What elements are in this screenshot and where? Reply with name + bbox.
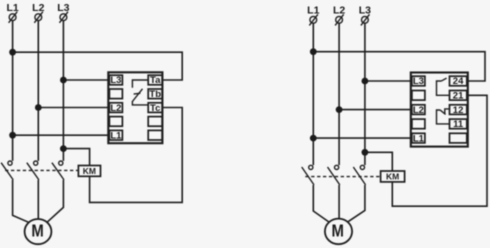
svg-text:L3: L3 — [57, 2, 69, 14]
svg-text:L1: L1 — [6, 2, 18, 14]
svg-text:L3: L3 — [413, 76, 424, 87]
svg-text:KM: KM — [386, 171, 399, 181]
svg-text:M: M — [31, 221, 43, 241]
svg-text:L3: L3 — [359, 4, 371, 16]
svg-text:Ta: Ta — [150, 75, 161, 86]
svg-text:L2: L2 — [110, 103, 121, 114]
svg-text:Tb: Tb — [149, 89, 161, 100]
svg-text:12: 12 — [453, 105, 464, 116]
svg-text:L1: L1 — [307, 4, 319, 16]
svg-text:L3: L3 — [110, 75, 121, 86]
svg-text:L2: L2 — [413, 105, 424, 116]
svg-text:Tc: Tc — [150, 103, 160, 114]
svg-text:24: 24 — [453, 76, 464, 87]
svg-text:L2: L2 — [333, 4, 345, 16]
svg-text:21: 21 — [453, 91, 464, 102]
svg-text:L2: L2 — [32, 2, 44, 14]
svg-text:L1: L1 — [110, 130, 122, 141]
svg-text:KM: KM — [83, 166, 96, 176]
svg-text:L1: L1 — [413, 133, 425, 144]
svg-text:11: 11 — [453, 119, 464, 130]
svg-text:M: M — [332, 220, 344, 240]
